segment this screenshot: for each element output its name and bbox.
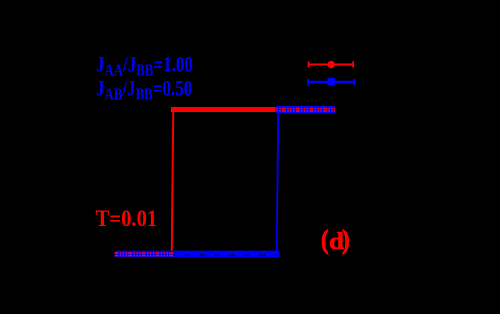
bottom branch blue bar [115,251,280,257]
top branch red solid segment [171,107,276,112]
red dashed overlay on top blue segment row 1 [276,107,335,109]
left vertical red transition [171,112,174,251]
legend blue errorbar line [307,81,355,84]
legend red errorbar right cap [352,61,354,67]
legend red errorbar left cap [308,61,310,67]
red dashed overlay on bottom blue bar row 2 [115,255,174,257]
svg-text:): ) [342,226,350,255]
legend blue square marker [328,78,335,85]
legend red errorbar line [308,63,354,65]
legend blue errorbar left cap [307,79,309,86]
top branch blue segment [276,106,335,113]
legend blue errorbar right cap [353,79,355,86]
red dashed overlay on bottom blue bar row 1 [115,252,174,254]
right vertical blue transition [276,113,279,251]
legend red circle marker [328,61,335,68]
red dashed overlay on top blue segment row 2 [276,110,335,112]
black dotted overlay on bottom blue bar [174,254,279,256]
svg-text:(: ( [321,226,329,255]
svg-text:T=0.01: T=0.01 [96,205,158,232]
